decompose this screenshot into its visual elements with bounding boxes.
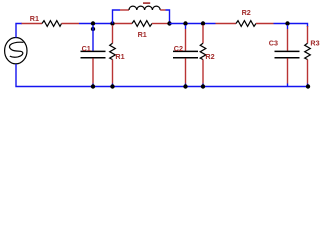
svg-text:R1: R1 bbox=[138, 30, 147, 39]
inductor L1 bbox=[120, 6, 166, 10]
wire inductor branch right bbox=[166, 10, 170, 24]
svg-text:C2: C2 bbox=[174, 44, 183, 53]
capacitor C3 bbox=[275, 25, 300, 87]
node A bbox=[91, 21, 95, 25]
resistor R2 (series right) bbox=[216, 21, 274, 27]
capacitor C2 bbox=[173, 25, 198, 87]
capacitor C1 bbox=[81, 25, 106, 87]
resistor R1 (parallel mid) bbox=[115, 21, 168, 27]
wire inductor branch left bbox=[113, 10, 121, 24]
svg-text:R3: R3 bbox=[310, 38, 319, 47]
node I bbox=[183, 84, 187, 88]
node F bbox=[285, 21, 289, 25]
node C bbox=[167, 21, 171, 25]
svg-text:C1: C1 bbox=[82, 44, 91, 53]
resistor R1 (series left) bbox=[22, 21, 80, 27]
svg-text:R2: R2 bbox=[242, 8, 251, 17]
node D bbox=[183, 21, 187, 25]
svg-text:R1: R1 bbox=[115, 52, 124, 61]
AC source V1 bbox=[5, 38, 27, 64]
node E bbox=[201, 21, 205, 25]
node A2 (C1 pin junction) bbox=[91, 27, 95, 31]
node J bbox=[201, 84, 205, 88]
svg-text:R1: R1 bbox=[30, 14, 39, 23]
node G bbox=[91, 84, 95, 88]
node K bbox=[306, 84, 310, 88]
wire R2 to right corner bbox=[274, 24, 308, 28]
resistor R3 (vertical shunt 3) bbox=[305, 26, 311, 87]
resistor R1 (vertical shunt 1) bbox=[110, 25, 116, 87]
node B bbox=[110, 21, 114, 25]
wire bottom rail bbox=[16, 64, 310, 87]
node H bbox=[110, 84, 114, 88]
resistor R2 (vertical shunt 2) bbox=[200, 25, 206, 87]
svg-text:C3: C3 bbox=[269, 38, 278, 47]
wire node A to node B bbox=[79, 23, 113, 25]
svg-text:R2: R2 bbox=[205, 52, 214, 61]
wire node C to R2 bbox=[170, 23, 216, 25]
label L1 (clipped) bbox=[143, 2, 150, 4]
wire source top bbox=[16, 24, 22, 38]
